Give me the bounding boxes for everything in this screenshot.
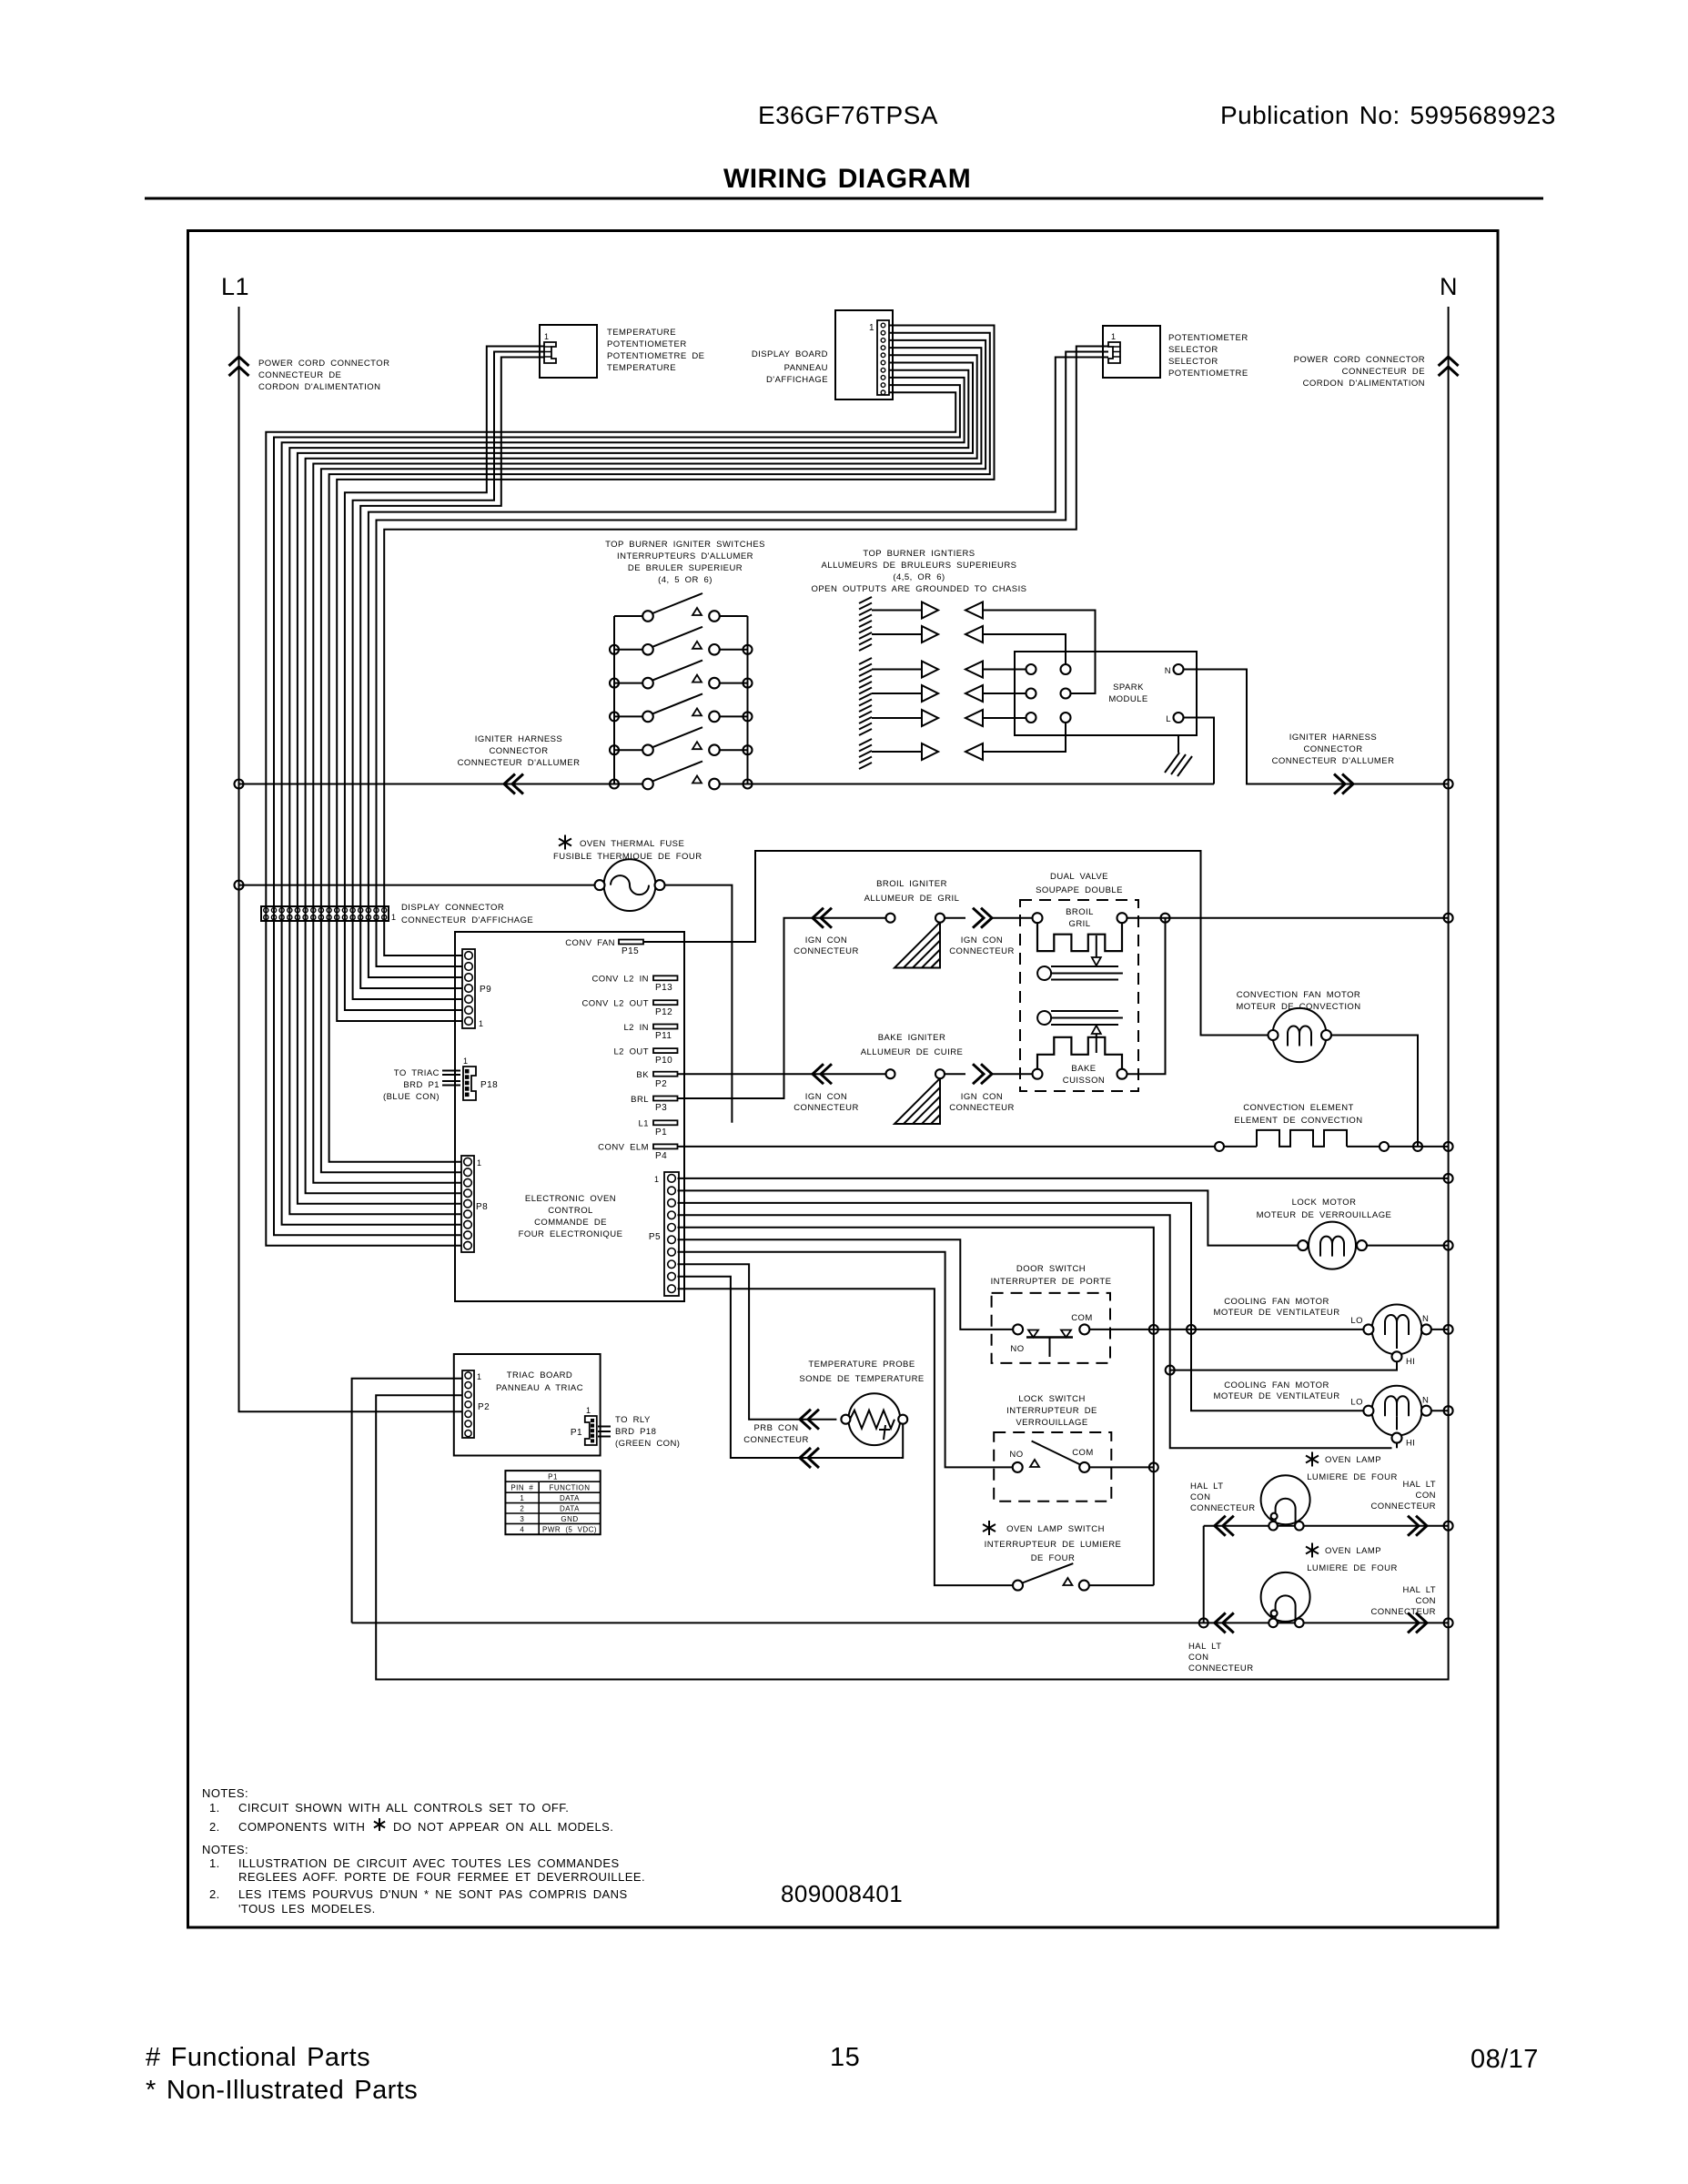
svg-text:CONNECTEUR D'AFFICHAGE: CONNECTEUR D'AFFICHAGE <box>401 915 533 925</box>
svg-text:CONNECTEUR: CONNECTEUR <box>949 946 1015 956</box>
switch assembly rails <box>613 616 615 784</box>
svg-text:CONNECTEUR: CONNECTEUR <box>1370 1501 1436 1512</box>
svg-text:P9: P9 <box>480 985 491 995</box>
junction door output - fan LO feed <box>1187 1325 1196 1334</box>
wire bundle display connector to P8 (9 wires) <box>266 921 461 1246</box>
wire fan2 N to N rail <box>1431 1410 1449 1411</box>
wire CONV ELM P4 to convection element <box>678 1146 1216 1148</box>
svg-text:PIN #: PIN # <box>510 1484 533 1492</box>
junction broil-bake return <box>1161 914 1170 923</box>
convection fan motor M1 <box>1269 1008 1332 1062</box>
svg-text:1: 1 <box>477 1158 481 1168</box>
svg-text:CONNECTEUR: CONNECTEUR <box>1188 1663 1254 1673</box>
svg-text:DUAL VALVE: DUAL VALVE <box>1050 872 1108 882</box>
wire bundle display board to display connector (10 wires) <box>266 326 994 922</box>
svg-text:DATA: DATA <box>560 1494 580 1502</box>
svg-text:Publication No: 5995689923: Publication No: 5995689923 <box>1220 101 1556 129</box>
svg-text:CONNECTEUR D'ALLUMER: CONNECTEUR D'ALLUMER <box>458 758 581 768</box>
svg-text:DISPLAY CONNECTOR: DISPLAY CONNECTOR <box>401 903 504 913</box>
svg-text:CIRCUIT SHOWN WITH ALL CONTROL: CIRCUIT SHOWN WITH ALL CONTROLS SET TO O… <box>238 1801 569 1815</box>
svg-text:NO: NO <box>1009 1450 1023 1460</box>
connector P9 <box>462 949 475 1028</box>
temperature potentiometer box <box>540 325 597 378</box>
wire spark module N to N rail <box>1184 670 1449 784</box>
wire lock motor to N rail <box>1367 1245 1449 1247</box>
wire thermal fuse to P1 L1 input <box>665 885 733 1123</box>
svg-text:1: 1 <box>463 1057 468 1066</box>
wire P5 pin10 to oven lamp switch <box>678 1289 1014 1585</box>
svg-text:BRD P1: BRD P1 <box>403 1080 440 1090</box>
connector P1 triac <box>585 1416 597 1445</box>
wire fan1 LO feed <box>1191 1329 1363 1330</box>
svg-text:BRD P18: BRD P18 <box>615 1427 656 1437</box>
svg-text:INTERRUPTEUR DE LUMIERE: INTERRUPTEUR DE LUMIERE <box>985 1540 1122 1550</box>
svg-text:1: 1 <box>586 1406 591 1415</box>
svg-text:POWER CORD CONNECTOR: POWER CORD CONNECTOR <box>258 359 389 369</box>
svg-text:CUISSON: CUISSON <box>1063 1076 1105 1086</box>
svg-text:NOTES:: NOTES: <box>202 1786 248 1800</box>
junction lamp2 - N rail <box>1444 1618 1453 1627</box>
svg-text:DE BRULER SUPERIEUR: DE BRULER SUPERIEUR <box>628 563 743 573</box>
svg-text:CONNECTEUR: CONNECTEUR <box>793 946 859 956</box>
junction lock motor - N rail <box>1444 1241 1453 1250</box>
triac board U2 box <box>454 1354 601 1456</box>
wire P5 pin7 to lock switch <box>678 1252 1013 1468</box>
svg-text:(4,5, OR 6): (4,5, OR 6) <box>893 572 945 582</box>
ign con connector bake right <box>945 1073 965 1075</box>
oven thermal fuse F1 <box>239 835 665 911</box>
svg-text:INTERRUPTER DE PORTE: INTERRUPTER DE PORTE <box>991 1277 1112 1287</box>
svg-text:CONNECTEUR: CONNECTEUR <box>743 1435 809 1445</box>
svg-text:P18: P18 <box>480 1080 498 1090</box>
svg-text:ELEMENT DE CONVECTION: ELEMENT DE CONVECTION <box>1234 1116 1362 1126</box>
svg-text:ILLUSTRATION DE CIRCUIT AVEC T: ILLUSTRATION DE CIRCUIT AVEC TOUTES LES … <box>238 1856 620 1870</box>
svg-text:POTENTIOMETRE DE: POTENTIOMETRE DE <box>607 351 704 361</box>
svg-text:CONV FAN: CONV FAN <box>565 938 615 948</box>
svg-text:INTERRUPTEUR DE: INTERRUPTEUR DE <box>1006 1406 1097 1416</box>
svg-text:E36GF76TPSA: E36GF76TPSA <box>758 101 938 129</box>
cooling fan motor M3 <box>1363 1305 1431 1362</box>
connector P8 <box>461 1156 474 1252</box>
wire bake valve out to broil line <box>1127 918 1166 1074</box>
svg-text:L: L <box>1166 714 1171 724</box>
igniter harness connector left <box>504 774 515 794</box>
svg-text:POTENTIOMETER: POTENTIOMETER <box>1168 333 1248 343</box>
pin P11 L2 IN <box>653 1025 678 1029</box>
wire bake to dual valve <box>992 1073 1033 1075</box>
wire BK P2 to bake igniter <box>678 1073 886 1075</box>
svg-text:MOTEUR DE VERROUILLAGE: MOTEUR DE VERROUILLAGE <box>1257 1210 1392 1220</box>
junction L1 rail - thermal fuse <box>235 881 244 890</box>
svg-text:GRIL: GRIL <box>1069 919 1091 929</box>
svg-text:L2 OUT: L2 OUT <box>613 1046 649 1057</box>
svg-text:TO TRIAC: TO TRIAC <box>394 1068 440 1078</box>
svg-text:FOUR ELECTRONIQUE: FOUR ELECTRONIQUE <box>519 1229 623 1239</box>
potentiometer selector box <box>1103 326 1160 378</box>
svg-text:VERROUILLAGE: VERROUILLAGE <box>1016 1418 1087 1428</box>
svg-text:TOP BURNER IGNTIERS: TOP BURNER IGNTIERS <box>863 549 975 559</box>
junction door output - sense line <box>1149 1325 1158 1334</box>
wire bundle display connector to P9 (7 wires) <box>337 921 462 1021</box>
hal lt connector lamp2 left <box>1215 1613 1226 1633</box>
door switch S1 <box>1013 1324 1089 1357</box>
wire fan1 HI down to HI feed <box>1170 1361 1397 1370</box>
prb con connector lower <box>800 1448 811 1468</box>
svg-text:FUSIBLE THERMIQUE DE FOUR: FUSIBLE THERMIQUE DE FOUR <box>553 852 702 862</box>
wire N rail (right supply) down and around to triac P2 pin3 <box>376 307 1448 1680</box>
svg-text:TEMPERATURE: TEMPERATURE <box>607 363 676 373</box>
svg-text:P11: P11 <box>655 1031 672 1041</box>
wire P5 pin9 to temperature probe return <box>678 1277 901 1458</box>
svg-text:LO: LO <box>1350 1316 1363 1326</box>
notes french <box>202 1843 645 1916</box>
svg-text:15: 15 <box>830 2043 860 2072</box>
svg-text:P2: P2 <box>478 1402 490 1412</box>
svg-text:CON: CON <box>1416 1596 1436 1606</box>
lock switch S2 <box>1013 1441 1090 1472</box>
svg-text:GND: GND <box>561 1515 578 1523</box>
wire broil valve out to N rail <box>1127 917 1449 919</box>
label oven lamp 2 <box>1306 1543 1319 1558</box>
wire oven lamp 1 line <box>1204 1526 1449 1623</box>
svg-text:P1: P1 <box>548 1473 558 1481</box>
title underline <box>145 197 1543 200</box>
wire bundle temperature potentiometer to display connector (3 wires) <box>345 347 544 922</box>
diagram border frame <box>188 231 1499 1928</box>
power cord connector L1 (double chevron) <box>229 357 249 366</box>
wire P5 pin5 sense line <box>678 1228 1154 1585</box>
svg-text:BRL: BRL <box>631 1095 649 1105</box>
svg-text:P2: P2 <box>655 1079 667 1089</box>
junction P5 pin1 - N rail <box>1444 1174 1453 1183</box>
wire oven lamp 2 line <box>352 1622 1449 1623</box>
svg-text:4: 4 <box>520 1526 524 1534</box>
wire bundle potentiometer selector to display connector (3 wires) <box>369 347 1108 922</box>
svg-text:BROIL: BROIL <box>1066 907 1094 917</box>
svg-text:P5: P5 <box>649 1232 661 1242</box>
connector P18 <box>463 1067 476 1100</box>
svg-text:COMMANDE DE: COMMANDE DE <box>534 1218 607 1228</box>
svg-text:SELECTOR: SELECTOR <box>1168 345 1218 355</box>
oven lamp DS1 <box>1261 1475 1310 1524</box>
svg-text:REGLEES AOFF. PORTE DE FOUR FE: REGLEES AOFF. PORTE DE FOUR FERMEE ET DE… <box>238 1870 645 1884</box>
svg-text:PRB CON: PRB CON <box>753 1423 798 1433</box>
svg-text:CONNECTEUR DE: CONNECTEUR DE <box>1342 367 1425 377</box>
svg-text:1.: 1. <box>209 1801 220 1815</box>
wire igniter E1 to spark module <box>983 611 1096 694</box>
pin P13 CONV L2 IN <box>653 976 678 980</box>
door switch dashed box <box>992 1293 1110 1363</box>
svg-text:1: 1 <box>477 1372 481 1381</box>
svg-text:BAKE: BAKE <box>1071 1064 1096 1074</box>
connector P5 <box>664 1172 679 1296</box>
svg-text:CONV ELM: CONV ELM <box>598 1143 649 1153</box>
wire P5 pin8 to temperature probe <box>678 1264 837 1420</box>
svg-text:(4, 5 OR 6): (4, 5 OR 6) <box>658 575 713 585</box>
display connector strip <box>261 906 389 921</box>
svg-text:P1: P1 <box>571 1428 582 1438</box>
svg-text:BK: BK <box>636 1070 649 1080</box>
svg-text:DISPLAY BOARD: DISPLAY BOARD <box>752 349 828 359</box>
svg-text:HAL LT: HAL LT <box>1403 1585 1436 1595</box>
svg-text:CONNECTEUR: CONNECTEUR <box>1370 1607 1436 1617</box>
svg-text:SONDE DE TEMPERATURE: SONDE DE TEMPERATURE <box>799 1374 924 1384</box>
svg-text:CONNECTOR: CONNECTOR <box>489 746 548 756</box>
svg-text:INTERRUPTEURS D'ALLUMER: INTERRUPTEURS D'ALLUMER <box>617 551 753 561</box>
svg-text:P15: P15 <box>622 946 639 956</box>
wire door switch COM to cooling fan LO line <box>1089 1329 1191 1330</box>
svg-text:PANNEAU: PANNEAU <box>784 363 828 373</box>
svg-text:HAL LT: HAL LT <box>1190 1481 1223 1491</box>
svg-text:P10: P10 <box>655 1056 672 1066</box>
broil igniter <box>886 914 945 968</box>
svg-text:TRIAC BOARD: TRIAC BOARD <box>507 1370 572 1380</box>
svg-text:NOTES:: NOTES: <box>202 1843 248 1856</box>
svg-text:1: 1 <box>479 1019 483 1028</box>
igniter switch SW4 <box>614 693 748 722</box>
svg-text:CONNECTEUR: CONNECTEUR <box>949 1103 1015 1113</box>
junction N rail - igniter return <box>1444 780 1453 789</box>
svg-text:DOOR SWITCH: DOOR SWITCH <box>1016 1264 1086 1274</box>
igniter switch SW6 <box>642 762 720 790</box>
svg-text:WIRING DIAGRAM: WIRING DIAGRAM <box>723 164 971 194</box>
dual valve dashed box <box>1020 900 1138 1091</box>
top burner igniter E4 <box>872 685 983 702</box>
pin P1 L1 <box>653 1120 678 1125</box>
svg-text:IGN CON: IGN CON <box>961 935 1003 945</box>
pin P2 BK <box>653 1072 678 1077</box>
top burner igniter E2 <box>872 626 983 642</box>
temperature probe RT1 <box>841 1393 907 1445</box>
svg-text:ALLUMEUR DE GRIL: ALLUMEUR DE GRIL <box>864 894 960 904</box>
svg-text:OPEN OUTPUTS ARE GROUNDED TO C: OPEN OUTPUTS ARE GROUNDED TO CHASIS <box>812 584 1027 594</box>
svg-text:CONNECTEUR DE: CONNECTEUR DE <box>258 370 341 380</box>
svg-text:SPARK: SPARK <box>1113 682 1144 693</box>
svg-text:ALLUMEUR DE CUIRE: ALLUMEUR DE CUIRE <box>861 1047 964 1057</box>
svg-text:DE FOUR: DE FOUR <box>1031 1553 1076 1563</box>
junction element - fan motor return <box>1413 1142 1422 1151</box>
svg-text:N: N <box>1422 1314 1429 1324</box>
pin P15 CONV FAN <box>619 940 643 945</box>
wire P5 pin3 to cooling fan LO feed <box>678 1203 1364 1410</box>
svg-text:LO: LO <box>1350 1397 1363 1407</box>
junction fan1 HI - HI feed <box>1166 1366 1175 1375</box>
svg-text:1: 1 <box>869 323 874 333</box>
oven lamp DS2 <box>1261 1572 1310 1622</box>
svg-text:COOLING FAN MOTOR: COOLING FAN MOTOR <box>1224 1297 1329 1307</box>
svg-text:HAL LT: HAL LT <box>1188 1642 1221 1652</box>
svg-text:TEMPERATURE: TEMPERATURE <box>607 328 676 338</box>
svg-text:IGNITER HARNESS: IGNITER HARNESS <box>475 734 562 744</box>
svg-text:CONV L2 OUT: CONV L2 OUT <box>582 999 650 1009</box>
junction element - N rail <box>1444 1142 1453 1151</box>
svg-text:CONNECTEUR: CONNECTEUR <box>793 1103 859 1113</box>
svg-text:LUMIERE DE FOUR: LUMIERE DE FOUR <box>1307 1563 1398 1573</box>
svg-text:OVEN LAMP SWITCH: OVEN LAMP SWITCH <box>1006 1524 1105 1534</box>
svg-text:CON: CON <box>1416 1491 1436 1501</box>
igniter chassis hatch marks <box>859 597 872 769</box>
svg-text:HAL LT: HAL LT <box>1403 1480 1436 1490</box>
wire fan1 N to N rail <box>1431 1329 1449 1330</box>
bake igniter <box>886 1069 945 1124</box>
wire probe return down <box>900 1424 903 1458</box>
svg-text:LUMIERE DE FOUR: LUMIERE DE FOUR <box>1307 1472 1398 1482</box>
svg-text:2: 2 <box>520 1505 524 1513</box>
svg-text:2.: 2. <box>209 1820 220 1834</box>
svg-text:BAKE IGNITER: BAKE IGNITER <box>878 1033 946 1043</box>
power cord connector N (double chevron) <box>1439 357 1459 366</box>
svg-text:MODULE: MODULE <box>1108 694 1147 704</box>
cooling fan motor M4 <box>1363 1386 1431 1443</box>
svg-text:1: 1 <box>1111 332 1116 341</box>
svg-text:DATA: DATA <box>560 1505 580 1513</box>
svg-text:OVEN THERMAL FUSE: OVEN THERMAL FUSE <box>580 839 684 849</box>
svg-text:LOCK MOTOR: LOCK MOTOR <box>1292 1198 1357 1208</box>
svg-text:SELECTOR: SELECTOR <box>1168 357 1218 367</box>
svg-text:MOTEUR DE VENTILATEUR: MOTEUR DE VENTILATEUR <box>1213 1308 1339 1318</box>
wire lock switch COM to sense line <box>1089 1466 1154 1468</box>
svg-text:POWER CORD CONNECTOR: POWER CORD CONNECTOR <box>1294 355 1425 365</box>
svg-text:IGN CON: IGN CON <box>805 1092 847 1102</box>
top burner igniter E6 <box>872 743 983 760</box>
svg-text:CONVECTION ELEMENT: CONVECTION ELEMENT <box>1243 1103 1354 1113</box>
svg-text:PANNEAU A TRIAC: PANNEAU A TRIAC <box>496 1383 583 1393</box>
wire BRL P3 to broil igniter <box>678 918 886 1098</box>
svg-text:CONNECTEUR: CONNECTEUR <box>1190 1503 1256 1513</box>
label oven lamp 1 <box>1306 1452 1319 1467</box>
svg-text:NO: NO <box>1010 1344 1024 1354</box>
wire igniter E4 to spark module <box>983 693 1026 694</box>
svg-text:(BLUE CON): (BLUE CON) <box>383 1092 440 1102</box>
svg-text:TOP BURNER IGNITER SWITCHES: TOP BURNER IGNITER SWITCHES <box>605 540 765 550</box>
svg-text:MOTEUR DE VENTILATEUR: MOTEUR DE VENTILATEUR <box>1213 1391 1339 1401</box>
svg-text:LES ITEMS POURVUS D'NUN * NE S: LES ITEMS POURVUS D'NUN * NE SONT PAS CO… <box>238 1887 628 1901</box>
pin P12 CONV L2 OUT <box>653 1000 678 1005</box>
svg-text:1: 1 <box>391 913 396 922</box>
svg-text:P3: P3 <box>655 1103 667 1113</box>
svg-text:* Non-Illustrated Parts: * Non-Illustrated Parts <box>146 2076 418 2105</box>
svg-text:CORDON D'ALIMENTATION: CORDON D'ALIMENTATION <box>258 382 380 392</box>
svg-text:(GREEN CON): (GREEN CON) <box>615 1439 680 1449</box>
convection element HE1 <box>1215 1130 1449 1151</box>
label oven lamp switch <box>983 1521 996 1535</box>
svg-text:HI: HI <box>1406 1357 1415 1367</box>
ign con connector broil left <box>813 908 824 928</box>
top burner igniter E1 <box>872 602 983 619</box>
wire CONV FAN P15 to convection fan motor <box>643 851 1269 1036</box>
hal lt connector lamp1 left <box>1215 1516 1226 1536</box>
svg-text:809008401: 809008401 <box>781 1880 903 1907</box>
stub wires to triac board P1 <box>442 1071 460 1086</box>
svg-text:ELECTRONIC OVEN: ELECTRONIC OVEN <box>525 1194 616 1204</box>
svg-text:CONV L2 IN: CONV L2 IN <box>592 975 650 985</box>
stub wires from triac P1 <box>598 1427 611 1437</box>
wire igniter E3 to spark module <box>983 669 1026 671</box>
svg-text:1.: 1. <box>209 1856 220 1870</box>
svg-text:# Functional Parts: # Functional Parts <box>146 2043 370 2072</box>
svg-text:DO NOT APPEAR ON ALL MODELS.: DO NOT APPEAR ON ALL MODELS. <box>393 1820 613 1834</box>
svg-text:IGN CON: IGN CON <box>805 935 847 945</box>
wire P5 pin2 to lock motor <box>678 1190 1299 1245</box>
junction lamp1 - N rail <box>1444 1522 1453 1531</box>
junction lamp1 feed - lamp2 line <box>1199 1618 1208 1627</box>
wire lamp switch to sense line <box>1089 1584 1154 1586</box>
P1 pin function table <box>505 1471 600 1534</box>
igniter switch SW1 <box>614 593 748 622</box>
svg-text:1: 1 <box>654 1175 659 1184</box>
svg-text:D'AFFICHAGE: D'AFFICHAGE <box>766 375 828 385</box>
svg-text:TO RLY: TO RLY <box>615 1415 651 1425</box>
svg-text:ALLUMEURS DE BRULEURS SUPERIEU: ALLUMEURS DE BRULEURS SUPERIEURS <box>822 561 1017 571</box>
svg-text:COOLING FAN MOTOR: COOLING FAN MOTOR <box>1224 1380 1329 1390</box>
wire convection fan motor to element line <box>1331 1036 1418 1147</box>
igniter harness connector right <box>1342 774 1353 794</box>
wire P5 pin4 to cooling fan HI feed <box>678 1215 1392 1448</box>
pin P10 L2 OUT <box>653 1048 678 1053</box>
svg-text:L1: L1 <box>221 273 249 300</box>
ign con connector broil right <box>945 917 965 919</box>
svg-text:N: N <box>1165 666 1171 676</box>
display board box <box>835 310 893 399</box>
wire igniter bus from L1 rail through switches to spark module L <box>239 784 643 785</box>
svg-text:2.: 2. <box>209 1887 220 1901</box>
wire broil to dual valve <box>992 917 1033 919</box>
svg-text:MOTEUR DE CONVECTION: MOTEUR DE CONVECTION <box>1236 1002 1360 1012</box>
junction L1 rail - igniter bus <box>235 780 244 789</box>
top burner igniter E5 <box>872 710 983 726</box>
svg-text:IGNITER HARNESS: IGNITER HARNESS <box>1289 733 1377 743</box>
notes english <box>202 1786 569 1834</box>
broil valve coil <box>1033 913 1127 980</box>
svg-text:P13: P13 <box>655 983 672 993</box>
ign con connector bake left <box>813 1064 824 1084</box>
svg-text:CON: CON <box>1190 1492 1210 1502</box>
svg-text:TEMPERATURE PROBE: TEMPERATURE PROBE <box>808 1360 915 1370</box>
top burner igniter E3 <box>872 662 983 678</box>
svg-text:CONNECTEUR D'ALLUMER: CONNECTEUR D'ALLUMER <box>1272 756 1395 766</box>
svg-text:COMPONENTS WITH: COMPONENTS WITH <box>238 1820 365 1834</box>
wire fan2 HI to HI feed <box>1396 1443 1398 1449</box>
wire spark module L to igniter bus <box>1184 718 1215 784</box>
svg-text:OVEN LAMP: OVEN LAMP <box>1325 1455 1381 1465</box>
svg-text:CONVECTION FAN MOTOR: CONVECTION FAN MOTOR <box>1237 990 1360 1000</box>
svg-text:CORDON D'ALIMENTATION: CORDON D'ALIMENTATION <box>1303 379 1425 389</box>
svg-text:PWR (5 VDC): PWR (5 VDC) <box>542 1526 597 1534</box>
svg-text:L1: L1 <box>639 1119 649 1129</box>
spark module chassis ground <box>1165 735 1192 776</box>
svg-text:FUNCTION: FUNCTION <box>550 1484 591 1492</box>
svg-text:P4: P4 <box>655 1151 667 1161</box>
oven lamp switch S3 <box>1013 1563 1089 1591</box>
svg-text:POTENTIOMETRE: POTENTIOMETRE <box>1168 369 1248 379</box>
prb con connector upper <box>800 1410 811 1430</box>
wire igniter E5 to spark module <box>983 717 1026 719</box>
igniter switch SW3 <box>614 661 748 689</box>
wire P5 pin6 to door switch <box>678 1239 1014 1330</box>
junction broil return - N rail <box>1444 914 1453 923</box>
spark module box <box>1015 652 1197 735</box>
svg-text:P12: P12 <box>655 1007 672 1017</box>
svg-text:L2 IN: L2 IN <box>623 1023 649 1033</box>
svg-text:P8: P8 <box>476 1202 488 1212</box>
svg-text:'TOUS LES MODELES.: 'TOUS LES MODELES. <box>238 1902 376 1916</box>
svg-text:1: 1 <box>544 332 549 341</box>
svg-text:HI: HI <box>1406 1438 1415 1448</box>
wire igniter E2 to spark module <box>983 634 1066 664</box>
svg-text:SOUPAPE DOUBLE: SOUPAPE DOUBLE <box>1036 885 1123 895</box>
svg-text:1: 1 <box>520 1494 524 1502</box>
igniter switch SW5 <box>614 727 748 755</box>
